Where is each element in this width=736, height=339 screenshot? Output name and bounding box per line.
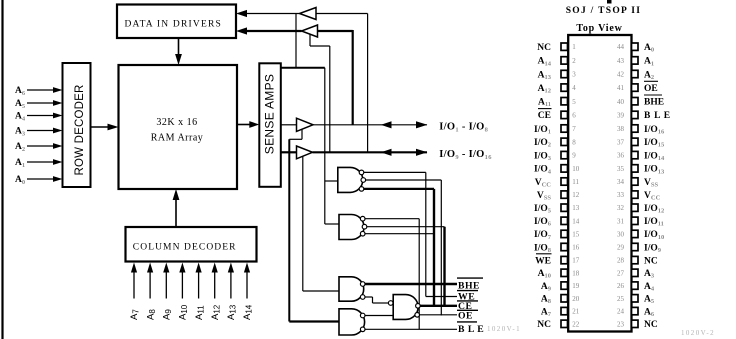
svg-text:NC: NC [537,43,551,53]
wire A1 into ROW DECODER [27,161,54,163]
wire ROW DECODER to RAM [91,126,110,128]
wire vE (thick) down to CE line [443,227,445,306]
pin 12 VSS (left) [561,191,568,198]
wire G1c to vC (thick) [364,188,434,190]
pin 15 I/O7 (left) [561,230,568,237]
svg-text:15: 15 [572,230,580,238]
pin 32 I/O12 (right) [632,204,639,211]
node BLE label with overline [457,321,477,323]
wire SENSE AMPS to buffer T4 (thick) [281,151,297,153]
arrowhead A14 [244,263,250,273]
pin 2 A14 (left) [561,57,568,64]
wire from T2 elbow down to I/O9-16 line [329,46,331,152]
pin 33 VCC (right) [632,191,639,198]
svg-text:NC: NC [537,320,551,330]
arrowhead I/O1-8 right [416,121,427,128]
svg-text:1020V-2: 1020V-2 [681,329,715,337]
IC package outline U6 [568,35,631,332]
svg-text:20: 20 [572,295,580,303]
pin 22 NC (left) [561,320,568,327]
svg-text:WE: WE [535,256,551,266]
wire T2 input (thick) [318,30,353,32]
pin 14 I/O6 (left) [561,217,568,224]
wire G3b step across [365,296,373,298]
svg-text:29: 29 [617,244,625,252]
wire G1a to vB [364,171,426,173]
gate U3 (AND, BHE logic) [339,277,364,301]
svg-text:26: 26 [617,282,625,290]
pin 35 I/O13 (right) [632,165,639,172]
svg-text:40: 40 [617,98,625,106]
block SENSE AMPS [259,63,281,187]
wire A9 into COLUMN DECODER [165,272,167,299]
svg-text:3: 3 [572,71,576,79]
svg-text:42: 42 [617,71,625,79]
svg-text:COLUMN DECODER: COLUMN DECODER [133,243,237,253]
pin 41 OE (right) [632,84,639,91]
wire A2 into ROW DECODER [27,145,54,147]
svg-text:6: 6 [572,111,576,119]
wire branch into gate G2 [325,223,339,225]
wire A8 into COLUMN DECODER [149,272,151,299]
svg-text:28: 28 [617,257,625,265]
arrowhead into DATA IN DRIVERS lower [236,27,247,34]
pin 20 A8 (left) [561,295,568,302]
bubble G2 out b [362,224,367,229]
svg-text:44: 44 [617,43,625,51]
wire vC (thick) down to CE line [433,189,435,306]
gate U5 (AND, BLE logic) [339,309,365,335]
pin 5 A11 (left) [561,98,568,105]
svg-text:33: 33 [617,191,625,199]
svg-text:B L E: B L E [644,111,671,121]
wire G1b to vD [366,179,442,181]
svg-text:18: 18 [572,269,580,277]
wire vA down to BLE line [418,219,420,330]
svg-text:13: 13 [572,204,580,212]
buffer T3 (output upper) [297,118,314,131]
bubble G3 out a [360,282,365,287]
pin 24 A6 (right) [632,307,639,314]
buffer T4 (output lower) [297,146,313,159]
svg-text:8: 8 [572,138,576,146]
pin 10 I/O4 (left) [561,165,568,172]
arrowhead I/O1-8 left [381,121,392,128]
svg-text:35: 35 [617,165,625,173]
svg-text:I/O9 - I/O16: I/O9 - I/O16 [439,149,492,161]
wire T1 input from I/O bus [316,13,368,15]
pin 4 A12 (left) [561,84,568,91]
bubble G1 out c [359,187,364,192]
pin 37 I/O15 (right) [632,138,639,145]
svg-text:A14: A14 [242,304,254,320]
node BHE label with overline [457,277,483,279]
pin 11 VCC (left) [561,178,568,185]
wire A6 into ROW DECODER [27,89,54,91]
svg-text:39: 39 [617,111,625,119]
wire A5 into ROW DECODER [27,102,54,104]
pin 25 A5 (right) [632,295,639,302]
pin 21 A7 (left) [561,307,568,314]
svg-text:A12: A12 [210,304,222,320]
pin 7 I/O1 (left) [561,125,568,132]
arrowhead A0 [53,176,63,182]
svg-text:B L E: B L E [458,324,484,335]
wire T2 bottom elbow down [309,35,311,47]
svg-text:OE: OE [458,311,473,322]
wire RAM to SENSE AMPS [237,124,251,126]
wire G5a into G4 lower input [365,315,393,317]
svg-text:30: 30 [617,230,625,238]
svg-text:4: 4 [572,84,576,92]
svg-text:Top View: Top View [576,23,622,34]
arrowhead A8 [147,263,153,273]
wire vD down to OE line [440,180,442,316]
svg-text:12: 12 [572,191,580,199]
block COLUMN DECODER [126,227,257,262]
svg-text:9: 9 [572,152,576,160]
pin 26 A4 (right) [632,282,639,289]
svg-text:32: 32 [617,204,625,212]
bubble G4 in [388,301,393,306]
arrowhead A9 [163,263,169,273]
bubble G5 out b [360,327,365,332]
bubble G2 out c [360,231,365,236]
pin 31 I/O11 (right) [632,217,639,224]
svg-text:37: 37 [617,138,625,146]
wire vertical from T1 output down [295,14,297,68]
arrowhead I/O9-16 right [416,149,427,156]
wire I/O9-I/O16 bus line (thick) [313,151,428,153]
arrowhead A11 [196,263,202,273]
wire A7 into COLUMN DECODER [133,272,135,299]
svg-text:34: 34 [617,178,625,186]
arrowhead A10 [179,263,185,273]
svg-text:22: 22 [572,320,580,328]
pin 17 WE (left) [561,256,568,263]
wire into gate G5 (thick) [289,320,339,322]
svg-text:ROW DECODER: ROW DECODER [74,84,86,175]
wire T3 bottom step down [301,130,303,140]
wire G3b into G4 bubble [373,302,389,304]
block DATA IN DRIVERS [117,5,236,39]
svg-text:32K x 16: 32K x 16 [156,117,197,128]
gate U1 (AND, I/O1-8 enable) [338,167,363,192]
arrowhead A12 [212,263,218,273]
wire I/O1-I/O8 bus line [313,124,427,126]
svg-text:SOJ / TSOP II: SOJ / TSOP II [566,6,642,16]
arrowhead A5 [53,100,63,106]
svg-text:23: 23 [617,320,625,328]
gate U2 (AND, I/O9-16 enable) [339,215,364,240]
buffer T2 (input driver lower) [302,25,318,37]
svg-text:A8: A8 [145,309,157,320]
wire into gate G3 [303,290,339,292]
svg-text:1: 1 [572,43,576,51]
pin 1 NC (left) [561,43,568,50]
wire COLUMN DECODER up to RAM [175,199,177,228]
svg-text:A9: A9 [162,309,174,320]
wire CE line (thick) [420,305,457,307]
pin 38 I/O16 (right) [632,125,639,132]
svg-text:36: 36 [617,152,625,160]
arrowhead A7 [131,263,137,273]
svg-text:21: 21 [572,308,580,316]
wire A0 into ROW DECODER [27,178,54,180]
pin 6 CE (left) [561,111,568,118]
wire A10 into COLUMN DECODER [181,272,183,299]
arrowhead A6 [53,87,63,93]
pin 34 VSS (right) [632,178,639,185]
wire T3 bottom step across [289,138,302,140]
svg-text:1020V-1: 1020V-1 [487,325,521,333]
pin 39 B L E (right) [632,111,639,118]
wire A11 into COLUMN DECODER [198,272,200,299]
svg-text:24: 24 [617,308,625,316]
pin 43 A1 (right) [632,57,639,64]
wire SENSE AMPS top elbow horizontal [281,67,325,69]
pin 18 A10 (left) [561,269,568,276]
wire T4 bottom vertical down to gate G3 [302,157,304,292]
svg-text:25: 25 [617,295,625,303]
bubble G3 out b [360,295,365,300]
svg-text:27: 27 [617,269,625,277]
wire vertical (thick) down to gate G5 [288,139,290,321]
pin 30 I/O10 (right) [632,230,639,237]
svg-text:BHE: BHE [644,98,664,108]
wire G2c to vC [365,233,434,235]
svg-text:CE: CE [538,111,551,121]
arrowhead A4 [53,113,63,119]
wire left page border line [1,0,3,339]
svg-text:16: 16 [572,244,580,252]
svg-text:31: 31 [617,217,625,225]
wire A12 into COLUMN DECODER [214,272,216,299]
wire branch into gate G1 [325,180,338,182]
wire OE line [420,314,458,316]
bubble G5 out a [360,313,365,318]
pin 36 I/O14 (right) [632,151,639,158]
svg-text:5: 5 [572,98,576,106]
block ROW DECODER [63,63,91,187]
pin 16 I/O8 (left) [561,243,568,250]
wire G3b step down [372,297,374,303]
wire A3 into ROW DECODER [27,130,54,132]
svg-text:NC: NC [644,256,658,266]
pin 9 I/O3 (left) [561,151,568,158]
svg-text:19: 19 [572,282,580,290]
wire vertical gate feed bus from sense elbow [324,68,326,224]
node WE label with overline [457,290,478,292]
pin 8 I/O2 (left) [561,138,568,145]
svg-text:OE: OE [644,84,658,94]
label cropped glyph above title [607,0,612,4]
svg-text:41: 41 [617,84,625,92]
svg-text:I/O1 - I/O8: I/O1 - I/O8 [439,122,488,134]
svg-text:DATA IN DRIVERS: DATA IN DRIVERS [125,20,222,30]
wire SENSE AMPS to buffer T3 [281,124,297,126]
svg-text:RAM Array: RAM Array [151,133,204,144]
wire buffer T2 output to DATA IN DRIVERS (thick) [246,30,302,32]
pin 42 A2 (right) [632,70,639,77]
svg-text:A10: A10 [178,304,190,320]
wire vB down to WE line [425,172,427,296]
wire T2 bottom elbow across [310,45,330,47]
pin 40 BHE (right) [632,98,639,105]
svg-text:7: 7 [572,125,576,133]
pin 28 NC (right) [632,256,639,263]
arrowhead A3 [53,128,63,134]
wire vertical v2 (thick) down to I/O1-8 line [352,30,354,125]
node CE label with overline [457,300,478,302]
wire vertical v1 down to I/O9-16 line [367,14,369,153]
svg-text:11: 11 [572,178,579,186]
arrowhead into DATA IN DRIVERS upper [236,10,247,17]
arrowhead A13 [228,263,234,273]
svg-text:A13: A13 [226,304,238,320]
buffer T1 (input driver upper) [300,8,317,20]
bubble G1 out a [359,170,364,175]
svg-text:43: 43 [617,57,625,65]
svg-text:14: 14 [572,217,580,225]
svg-text:10: 10 [572,165,580,173]
node OE label with overline [457,309,478,311]
wire A14 into COLUMN DECODER [246,272,248,299]
wire DATA IN DRIVERS down to RAM [178,38,180,56]
wire G2b to vE [367,226,445,228]
arrowhead A2 [53,143,63,149]
pin 13 I/O5 (left) [561,204,568,211]
pin 27 A3 (right) [632,269,639,276]
svg-text:A11: A11 [194,305,206,320]
pin 3 A13 (left) [561,70,568,77]
svg-text:A7: A7 [129,309,141,320]
pin 44 A0 (right) [632,43,639,50]
svg-text:17: 17 [572,257,580,265]
bubble G2 out a [360,216,365,221]
wire WE line [426,296,457,298]
bubble G4 out a [416,304,421,309]
wire A4 into ROW DECODER [27,115,54,117]
wire BHE line (thick) [365,283,457,285]
arrowhead A1 [53,159,63,165]
pin 29 I/O9 (right) [632,243,639,250]
wire A13 into COLUMN DECODER [230,272,232,299]
wire G2a to vA [365,218,419,220]
wire BLE line [365,328,457,330]
arrowhead I/O9-16 left [381,149,392,156]
gate U4 (AND, CE/OE logic) [393,295,418,320]
wire buffer T1 output to DATA IN DRIVERS [246,13,300,15]
block RAM Array 32K x 16 [119,65,238,189]
svg-text:38: 38 [617,125,625,133]
pin 23 NC (right) [632,320,639,327]
bubble G1 out b [361,178,366,183]
bubble G4 out b [415,313,420,318]
svg-text:SENSE AMPS: SENSE AMPS [262,74,276,154]
pin 19 A9 (left) [561,282,568,289]
svg-text:NC: NC [644,320,658,330]
svg-text:2: 2 [572,57,576,65]
